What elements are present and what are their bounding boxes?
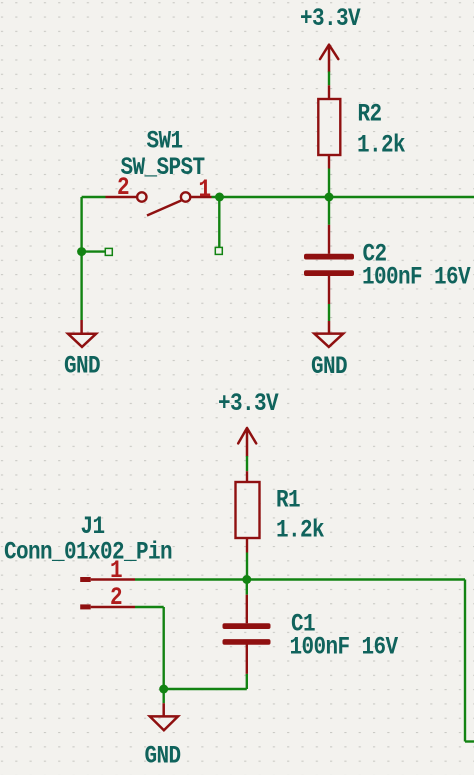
wire [328, 197, 330, 225]
wire (bottom horizontal bus) [135, 578, 465, 580]
power symbol +3.3V (bottom) [238, 428, 256, 456]
ground (left) [68, 320, 96, 347]
svg-text:2: 2 [110, 583, 122, 611]
resistor R1 [236, 471, 260, 552]
wire [246, 456, 248, 471]
junction (R1/C1 node) [242, 575, 251, 584]
wire (top horizontal bus) [212, 196, 474, 198]
junction (GND node) [159, 685, 168, 694]
svg-text:SW1: SW1 [147, 127, 183, 155]
svg-text:100nF 16V: 100nF 16V [290, 633, 399, 661]
wire (right vertical) [464, 580, 466, 742]
power symbol +3.3V (top) [320, 45, 338, 72]
svg-text:+3.3V: +3.3V [300, 4, 361, 32]
resistor R2 [318, 85, 340, 168]
svg-text:J1: J1 [81, 512, 105, 540]
capacitor C1 [223, 595, 271, 674]
wire [82, 196, 106, 198]
ground (below C2) [314, 321, 343, 347]
svg-text:GND: GND [311, 352, 348, 380]
wire [328, 72, 330, 86]
svg-text:1.2k: 1.2k [276, 516, 325, 544]
wire [162, 607, 164, 689]
unconnected wire end square (right) [215, 247, 222, 254]
switch SW1 [106, 192, 212, 215]
svg-text:1.2k: 1.2k [357, 131, 406, 159]
svg-text:SW_SPST: SW_SPST [121, 153, 206, 181]
svg-text:GND: GND [145, 742, 182, 770]
svg-text:R1: R1 [276, 486, 300, 514]
svg-text:100nF 16V: 100nF 16V [362, 263, 471, 291]
svg-text:GND: GND [64, 352, 101, 380]
unconnected wire end square (left) [105, 248, 112, 255]
wire [164, 688, 247, 690]
wire [135, 606, 164, 608]
junction (SW1 pin 1 node) [215, 193, 224, 202]
wire [246, 580, 248, 595]
junction (left stub node) [77, 247, 86, 256]
wire [328, 169, 330, 198]
wire (stub) [82, 250, 106, 252]
wire [218, 197, 220, 247]
wire (left vertical) [80, 197, 82, 320]
wire [162, 689, 164, 703]
svg-text:+3.3V: +3.3V [218, 389, 279, 417]
wire (bottom right exit) [465, 740, 474, 742]
capacitor C2 [304, 225, 354, 304]
svg-text:1: 1 [110, 556, 122, 584]
wire [328, 304, 330, 321]
svg-text:Conn_01x02_Pin: Conn_01x02_Pin [4, 538, 172, 566]
ground (bottom) [150, 703, 178, 730]
connector J1 [80, 577, 135, 609]
wire [246, 553, 248, 580]
wire [246, 674, 248, 689]
junction (R2/C2 node) [325, 193, 334, 202]
svg-text:R2: R2 [358, 100, 382, 128]
